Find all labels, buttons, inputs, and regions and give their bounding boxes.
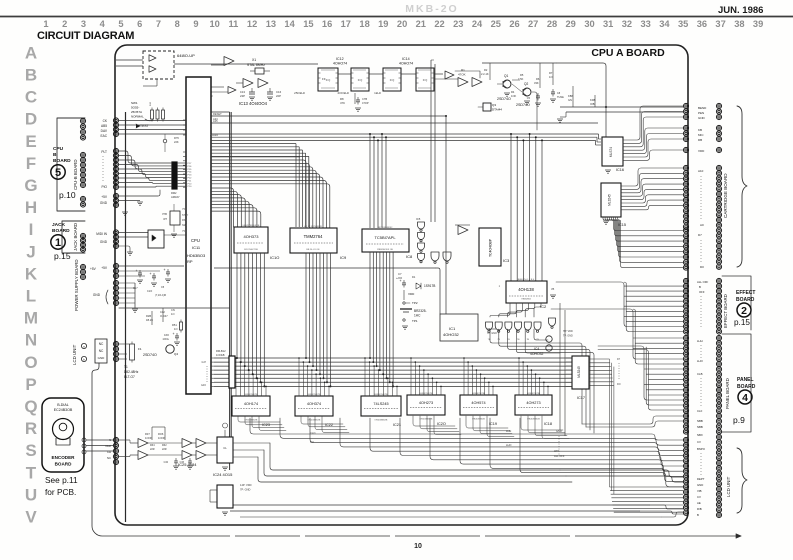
svg-text:PIO: PIO [102, 185, 108, 189]
svg-text:G: G [24, 176, 37, 195]
svg-text:30: 30 [584, 19, 594, 29]
wires IC15 to cartridge pins A8-A15 [621, 168, 683, 186]
effect board bracket [722, 276, 751, 330]
connector LCD NC box [95, 339, 107, 363]
svg-text:TUNE: TUNE [557, 96, 564, 99]
eprom IC9 TMM2764 [290, 228, 337, 253]
wires lower horizontal feeds [560, 470, 683, 477]
and gates mid [431, 252, 439, 261]
svg-text:6: 6 [137, 19, 142, 29]
svg-text:38: 38 [734, 19, 744, 29]
CPU B board bracket [57, 118, 85, 211]
transistor Q2 [523, 88, 531, 96]
cartridge brace [737, 106, 747, 267]
capacitors C34 C33 [174, 460, 178, 462]
transistor Q4 [166, 345, 174, 353]
svg-text:15: 15 [303, 19, 313, 29]
svg-text:9: 9 [193, 19, 198, 29]
svg-text:M: M [24, 309, 38, 328]
svg-text:JACK BOARD: JACK BOARD [73, 223, 78, 251]
svg-text:IC3: IC3 [503, 258, 510, 263]
svg-text:T1: T1 [124, 365, 128, 369]
svg-text:+: + [164, 268, 166, 272]
encoder dial [53, 419, 74, 440]
svg-text:BOARD: BOARD [55, 462, 73, 467]
svg-text:EAC: EAC [100, 134, 107, 138]
shift register IC26 4015 [217, 485, 233, 508]
wires frame to cpu top pins [119, 120, 186, 122]
svg-text:p.9: p.9 [733, 415, 745, 425]
svg-text:C3O: C3O [164, 334, 169, 337]
svg-text:T: T [26, 463, 37, 482]
bus lines turning to TMM2764 top [211, 143, 296, 145]
svg-text:IC17: IC17 [577, 396, 585, 400]
svg-text:ML3245: ML3245 [608, 194, 612, 206]
svg-text:1: 1 [43, 19, 48, 29]
gnd rail left [119, 307, 230, 309]
svg-text:N: N [25, 331, 37, 350]
gate outputs to panel feeds [490, 329, 582, 424]
svg-text:CPU: CPU [53, 146, 64, 152]
svg-text:Y54: Y54 [182, 230, 187, 233]
svg-text:TP1: TP1 [412, 319, 418, 323]
svg-text:EFFECT BOARD: EFFECT BOARD [723, 294, 728, 328]
svg-text:20: 20 [397, 19, 407, 29]
svg-text:R32: R32 [162, 444, 167, 447]
svg-text:IC4: IC4 [534, 347, 539, 351]
wires panel fan lowest [582, 416, 683, 424]
svg-text:(7,1O-1)B: (7,1O-1)B [155, 294, 166, 297]
svg-text:4OH273: 4OH273 [526, 401, 540, 405]
svg-text:CPU-B BOARD: CPU-B BOARD [73, 160, 78, 191]
svg-text:CPU A BOARD: CPU A BOARD [591, 47, 665, 59]
svg-text:p.15: p.15 [54, 251, 71, 261]
svg-text:I6I3I4I7I4I7IB: I6I3I4I7I4I7IB [374, 394, 388, 396]
svg-text:RESET: RESET [213, 112, 222, 116]
svg-text:22P: 22P [240, 94, 245, 98]
data bus verticals from TC5517 [369, 252, 371, 358]
address bus upper A8-A15 [211, 133, 599, 135]
connector block STBY [170, 211, 180, 225]
svg-text:I6I3I4I7I4I7IB: I6I3I4I7I4I7IB [472, 393, 486, 395]
svg-text:J: J [26, 242, 35, 261]
gate block outline IC1 region [440, 314, 478, 341]
svg-text:U: U [25, 485, 37, 504]
svg-text:R5: R5 [520, 73, 524, 77]
svg-text:NBB: NBB [697, 425, 703, 429]
svg-text:1O: 1O [174, 327, 177, 331]
svg-text:MIDI IN: MIDI IN [96, 232, 107, 236]
wire oscillator chain [174, 63, 318, 65]
svg-text:D: D [25, 110, 37, 129]
svg-text:TP: GND: TP: GND [563, 335, 573, 338]
wires bottom ic outputs staircase [238, 416, 280, 422]
svg-text:C17: C17 [133, 287, 138, 290]
svg-text:1kHz: 1kHz [374, 91, 381, 95]
svg-text:B: B [699, 285, 701, 289]
svg-text:26: 26 [509, 19, 519, 29]
svg-text:3: 3 [81, 19, 86, 29]
data band left staircase to cpu ports [211, 357, 214, 359]
svg-text:L: L [26, 287, 36, 306]
svg-text:+: + [400, 279, 402, 283]
svg-text:IC12: IC12 [336, 57, 344, 61]
panel board bracket [722, 334, 751, 432]
resistors R12 R13 R10 [151, 110, 154, 119]
svg-text:39: 39 [753, 19, 763, 29]
svg-text:GND: GND [93, 293, 101, 297]
svg-text:4OH138: 4OH138 [518, 287, 534, 292]
svg-text:12: 12 [247, 19, 257, 29]
svg-text:I6I3I4I7I4I7IB: I6I3I4I7I4I7IB [244, 394, 258, 396]
svg-text:BB DI--DI OE: BB DI--DI OE [306, 249, 320, 251]
svg-text:14: 14 [284, 19, 295, 29]
svg-text:I7B4IZBBIZB: I7B4IZBBIZB [472, 419, 485, 421]
register IC19 4OH574 [460, 395, 497, 415]
svg-text:22R: 22R [150, 448, 155, 451]
svg-text:2SD74O: 2SD74O [143, 353, 157, 357]
svg-text:DAV: DAV [101, 129, 108, 133]
svg-text:IC14: IC14 [402, 57, 410, 61]
svg-text:1S917B: 1S917B [424, 284, 435, 288]
wire LCD to bottom rail [92, 363, 741, 536]
bus driver IC15 74LS245 [601, 183, 621, 217]
svg-text:1O: 1O [171, 312, 174, 316]
svg-text:IC16: IC16 [616, 168, 624, 172]
svg-text:CH2: CH2 [105, 444, 111, 448]
svg-text:1OOkB: 1OOkB [216, 353, 225, 357]
wire bottom rail extra [240, 516, 662, 518]
gates IC1 row [486, 322, 493, 330]
svg-text:18: 18 [359, 19, 369, 29]
svg-text:DEPT: DEPT [697, 477, 705, 481]
svg-text:CIRCUIT DIAGRAM: CIRCUIT DIAGRAM [37, 30, 134, 42]
svg-text:HD63BO3: HD63BO3 [187, 253, 206, 258]
wire ff chain [338, 73, 351, 75]
svg-text:25OkHz: 25OkHz [294, 91, 305, 95]
address fan cpu to 40H373 [211, 188, 234, 227]
svg-text:4OHO74: 4OHO74 [399, 62, 413, 66]
svg-text:I4I5I2I7I8I3I4I7IB: I4I5I2I7I8I3I4I7IB [243, 225, 260, 227]
svg-text:GND: GND [556, 429, 562, 433]
flip-flop IC12b [351, 68, 369, 91]
svg-text:KB: KB [698, 128, 702, 132]
svg-text:B-DIAL: B-DIAL [57, 403, 69, 407]
svg-text:K: K [25, 264, 38, 283]
+5V rail [229, 112, 231, 470]
svg-text:Q4: Q4 [174, 352, 178, 356]
svg-text:R6: R6 [536, 77, 540, 81]
svg-text:I6I3I4I7I4I7IB: I6I3I4I7I4I7IB [419, 393, 433, 395]
svg-text:NC: NC [107, 456, 111, 460]
svg-text:LHO: LHO [697, 359, 704, 363]
svg-text:4: 4 [742, 392, 748, 404]
svg-text:VDD: VDD [698, 149, 705, 153]
svg-text:SW1: SW1 [131, 101, 138, 105]
CPU A board outline [115, 45, 688, 525]
svg-text:10: 10 [414, 543, 422, 550]
svg-text:BI3 7H44TDB: BI3 7H44TDB [244, 249, 258, 251]
svg-text:IC8: IC8 [406, 254, 413, 259]
svg-text:NMI: NMI [182, 224, 187, 227]
svg-text:D Q: D Q [358, 78, 363, 82]
data bus verticals from 40H373 [236, 253, 238, 358]
svg-text:+: + [150, 272, 152, 276]
svg-text:STAL 8MHz: STAL 8MHz [247, 63, 265, 67]
svg-text:2: 2 [62, 19, 67, 29]
svg-text:NC: NC [99, 342, 104, 346]
resistor array RM1 [229, 356, 235, 388]
svg-text:MLS74: MLS74 [609, 147, 613, 157]
svg-text:JACK: JACK [52, 222, 66, 228]
svg-text:RM2: RM2 [171, 191, 177, 195]
wire +5V GND pins [119, 190, 160, 196]
svg-text:R2B: R2B [146, 314, 151, 318]
svg-text:ARRAY: ARRAY [171, 195, 180, 199]
arrow line dash gaps [230, 535, 235, 538]
svg-text:for PCB.: for PCB. [45, 487, 76, 497]
bus verticals to 40H138 [510, 134, 512, 281]
svg-text:5: 5 [55, 167, 61, 179]
page top rule [0, 16, 793, 18]
svg-text:B: B [53, 152, 57, 158]
wires IC24 outputs right [233, 442, 270, 444]
inverter near IC3 [458, 226, 468, 235]
wire E clock line [211, 122, 598, 124]
address fan cpu to TMM2764 [211, 160, 306, 228]
svg-text:D0: D0 [700, 265, 704, 269]
svg-text:28: 28 [547, 19, 557, 29]
svg-text:IC1: IC1 [449, 326, 456, 331]
svg-text:V: V [25, 508, 37, 527]
svg-text:2.2-1K: 2.2-1K [481, 72, 489, 76]
svg-text:ENCODER: ENCODER [52, 455, 76, 460]
svg-text:23: 23 [453, 19, 463, 29]
svg-text:NBX: NBX [697, 433, 703, 437]
transistor pair near IC4 [546, 336, 552, 342]
svg-text:R4: R4 [511, 90, 515, 94]
svg-text:4OH574: 4OH574 [471, 401, 485, 405]
buffer inverter IC13a [224, 57, 234, 66]
svg-text:B: B [25, 66, 37, 85]
connector pins frame right cartridge [683, 103, 688, 108]
svg-text:7: 7 [156, 19, 161, 29]
decoder output staircase [490, 303, 510, 317]
svg-text:CLI: CLI [310, 440, 314, 444]
svg-text:1OOu: 1OOu [162, 338, 169, 341]
svg-text:AE: AE [697, 501, 701, 505]
svg-text:21: 21 [416, 19, 426, 29]
svg-text:PANEL: PANEL [737, 377, 754, 383]
svg-text:POWER SUPPLY BOARD: POWER SUPPLY BOARD [74, 259, 79, 311]
battery BR2325 [400, 308, 412, 310]
wires bottom long rails [230, 504, 650, 506]
wires encoder pins to inverters [119, 439, 130, 441]
connector pins cartridge board side [716, 103, 721, 108]
svg-text:TEST: TEST [140, 124, 149, 128]
svg-text:35: 35 [678, 19, 688, 29]
svg-text:IC11: IC11 [192, 245, 201, 250]
svg-text:F: F [26, 154, 36, 173]
svg-text:B6B-I25-O C B 4: B6B-I25-O C B 4 [518, 279, 535, 281]
svg-text:I7B4IZBBIZB: I7B4IZBBIZB [245, 420, 258, 422]
svg-text:G4O: G4O [201, 384, 206, 387]
svg-text:A: A [25, 43, 37, 62]
svg-text:Q: Q [24, 397, 37, 416]
svg-text:I7B4IZBBIZB: I7B4IZBBIZB [375, 420, 388, 422]
svg-text:R?6: R?6 [174, 136, 179, 140]
svg-text:PEN: PEN [698, 111, 704, 115]
latch IC16 [602, 137, 623, 166]
svg-text:16: 16 [322, 19, 332, 29]
svg-text:Y51: Y51 [182, 208, 187, 211]
svg-text:S: S [109, 438, 111, 442]
svg-text:P: P [25, 375, 36, 394]
svg-text:1HC: 1HC [414, 314, 421, 318]
svg-text:ML3245: ML3245 [577, 366, 581, 378]
svg-text:LCD UNIT: LCD UNIT [726, 476, 731, 497]
svg-text:R37: R37 [145, 432, 150, 436]
wires data band into bottom ICs [235, 358, 237, 396]
svg-text:4OH273: 4OH273 [419, 401, 433, 405]
svg-text:I7B4IZBBIZB: I7B4IZBBIZB [308, 420, 321, 422]
svg-text:MKB-2O: MKB-2O [405, 3, 458, 15]
data bus verticals from TMM2764 [305, 253, 307, 358]
svg-text:CH: CH [107, 450, 111, 454]
svg-text:STBY: STBY [182, 214, 189, 217]
svg-text:BR2325-: BR2325- [414, 309, 427, 313]
svg-text:CL: CL [223, 446, 227, 450]
gates IC5 pair [418, 222, 425, 229]
svg-text:IC2O: IC2O [437, 422, 446, 426]
svg-text:5: 5 [118, 19, 123, 29]
svg-text:2SD74O: 2SD74O [516, 103, 530, 107]
svg-text:TC4O4OBP: TC4O4OBP [489, 238, 493, 257]
wire frame to sub-cpu box [116, 59, 143, 61]
svg-text:IC22: IC22 [325, 423, 333, 427]
svg-text:CLF: CLF [697, 409, 703, 413]
wires panel fan lower [598, 346, 683, 400]
svg-text:R2: R2 [484, 68, 488, 72]
svg-text:37: 37 [715, 19, 725, 29]
svg-text:+: + [173, 332, 175, 336]
svg-text:LHH: LHH [506, 429, 511, 433]
svg-text:+5V: +5V [90, 267, 97, 271]
svg-text:A15: A15 [213, 119, 218, 123]
capacitor C16 [269, 88, 271, 92]
cpu pin labels [183, 119, 186, 121]
wires panel fan upper [551, 309, 683, 359]
svg-text:R7: R7 [549, 71, 553, 75]
svg-text:OFF: OFF [554, 449, 560, 453]
inverters IC25 input pair [138, 439, 148, 448]
svg-text:4OHO74: 4OHO74 [333, 62, 347, 66]
svg-text:I8I7I2I4I5I8I9I2: I8I7I2I4I5I8I9I2 [378, 227, 393, 229]
svg-text:CV: CV [697, 440, 701, 444]
svg-text:EC24B3OB: EC24B3OB [54, 408, 73, 412]
wire clock to right [532, 92, 537, 130]
svg-text:2: 2 [741, 305, 747, 317]
svg-text:CV: CV [697, 495, 701, 499]
svg-text:IC1O: IC1O [270, 255, 279, 260]
svg-text:B: B [697, 513, 699, 517]
wires frame to RM2 staircase [119, 151, 172, 163]
svg-text:HP: VDD: HP: VDD [563, 330, 573, 333]
mid band wires [214, 267, 436, 269]
svg-text:4OHO32: 4OHO32 [443, 332, 460, 337]
svg-text:CPU: CPU [191, 238, 200, 243]
svg-text:19: 19 [378, 19, 388, 29]
svg-text:D82-48Hz: D82-48Hz [124, 370, 139, 374]
bottom arrow head [736, 534, 741, 538]
svg-text:I6I3I4I7I4I7IB: I6I3I4I7I4I7IB [527, 393, 541, 395]
svg-text:O.O47: O.O47 [160, 314, 168, 318]
bus verticals to TC5517 top [369, 134, 371, 228]
lcd brace [737, 448, 747, 513]
svg-text:1OOK: 1OOK [145, 436, 152, 440]
svg-text:I: I [29, 220, 34, 239]
svg-text:D1: D1 [412, 275, 416, 279]
svg-text:64I8O-UP: 64I8O-UP [177, 53, 195, 58]
sub-cpu dashed box 64180-UP [143, 51, 174, 79]
svg-text:4OH174: 4OH174 [244, 402, 258, 406]
latch IC10 40H373 [234, 227, 268, 253]
svg-text:C34: C34 [164, 461, 169, 464]
svg-text:D Q: D Q [390, 78, 395, 82]
ff output verticals [430, 60, 432, 222]
svg-text:+5V: +5V [101, 266, 108, 270]
svg-text:GN: GN [568, 98, 572, 102]
wires bottom outputs to lcd fan [250, 418, 683, 440]
svg-text:RM-B12: RM-B12 [216, 349, 226, 353]
svg-text:p.10: p.10 [59, 190, 76, 200]
capacitor C13 [251, 88, 253, 92]
svg-text:Q3: Q3 [492, 103, 496, 107]
svg-text:5O55-: 5O55- [131, 106, 139, 110]
svg-text:TMM2764: TMM2764 [304, 234, 324, 239]
svg-text:7P: GND: 7P: GND [240, 488, 251, 492]
ff inner pin ticks [318, 72, 321, 74]
inverter buffers clock out [445, 71, 454, 79]
svg-text:LHO: LHO [506, 443, 511, 447]
counter IC3 [479, 228, 501, 266]
svg-text:17: 17 [341, 19, 351, 29]
svg-text:Q2: Q2 [524, 82, 528, 86]
midi optocoupler [119, 232, 148, 234]
svg-text:33K: 33K [534, 81, 539, 85]
svg-text:NORMAL: NORMAL [131, 115, 144, 119]
svg-text:MIC: MIC [698, 133, 704, 137]
data bus horizontal band D0-D7 [214, 357, 572, 359]
power rail inside left edge [125, 112, 127, 522]
register IC18 4OH273 [515, 395, 552, 415]
svg-text:GND: GND [698, 116, 706, 120]
svg-text:A2O: A2O [213, 133, 218, 137]
svg-text:CN: CN [171, 308, 175, 312]
svg-text:ALL OFF: ALL OFF [554, 454, 565, 458]
svg-text:IC18: IC18 [544, 422, 552, 426]
svg-text:14P: VDD: 14P: VDD [240, 483, 252, 487]
sram IC8 TC5517APL [362, 229, 409, 252]
svg-text:2SD74O: 2SD74O [497, 97, 511, 101]
svg-text:I7BBI2B4I: I7BBI2B4I [521, 299, 531, 301]
svg-text:X1: X1 [252, 58, 256, 62]
wire vertical reset drop [445, 116, 447, 314]
register IC23 4OH174 [232, 396, 270, 416]
svg-text:33: 33 [641, 19, 651, 29]
svg-text:BOARD: BOARD [52, 228, 70, 234]
svg-text:PLT: PLT [101, 150, 107, 154]
